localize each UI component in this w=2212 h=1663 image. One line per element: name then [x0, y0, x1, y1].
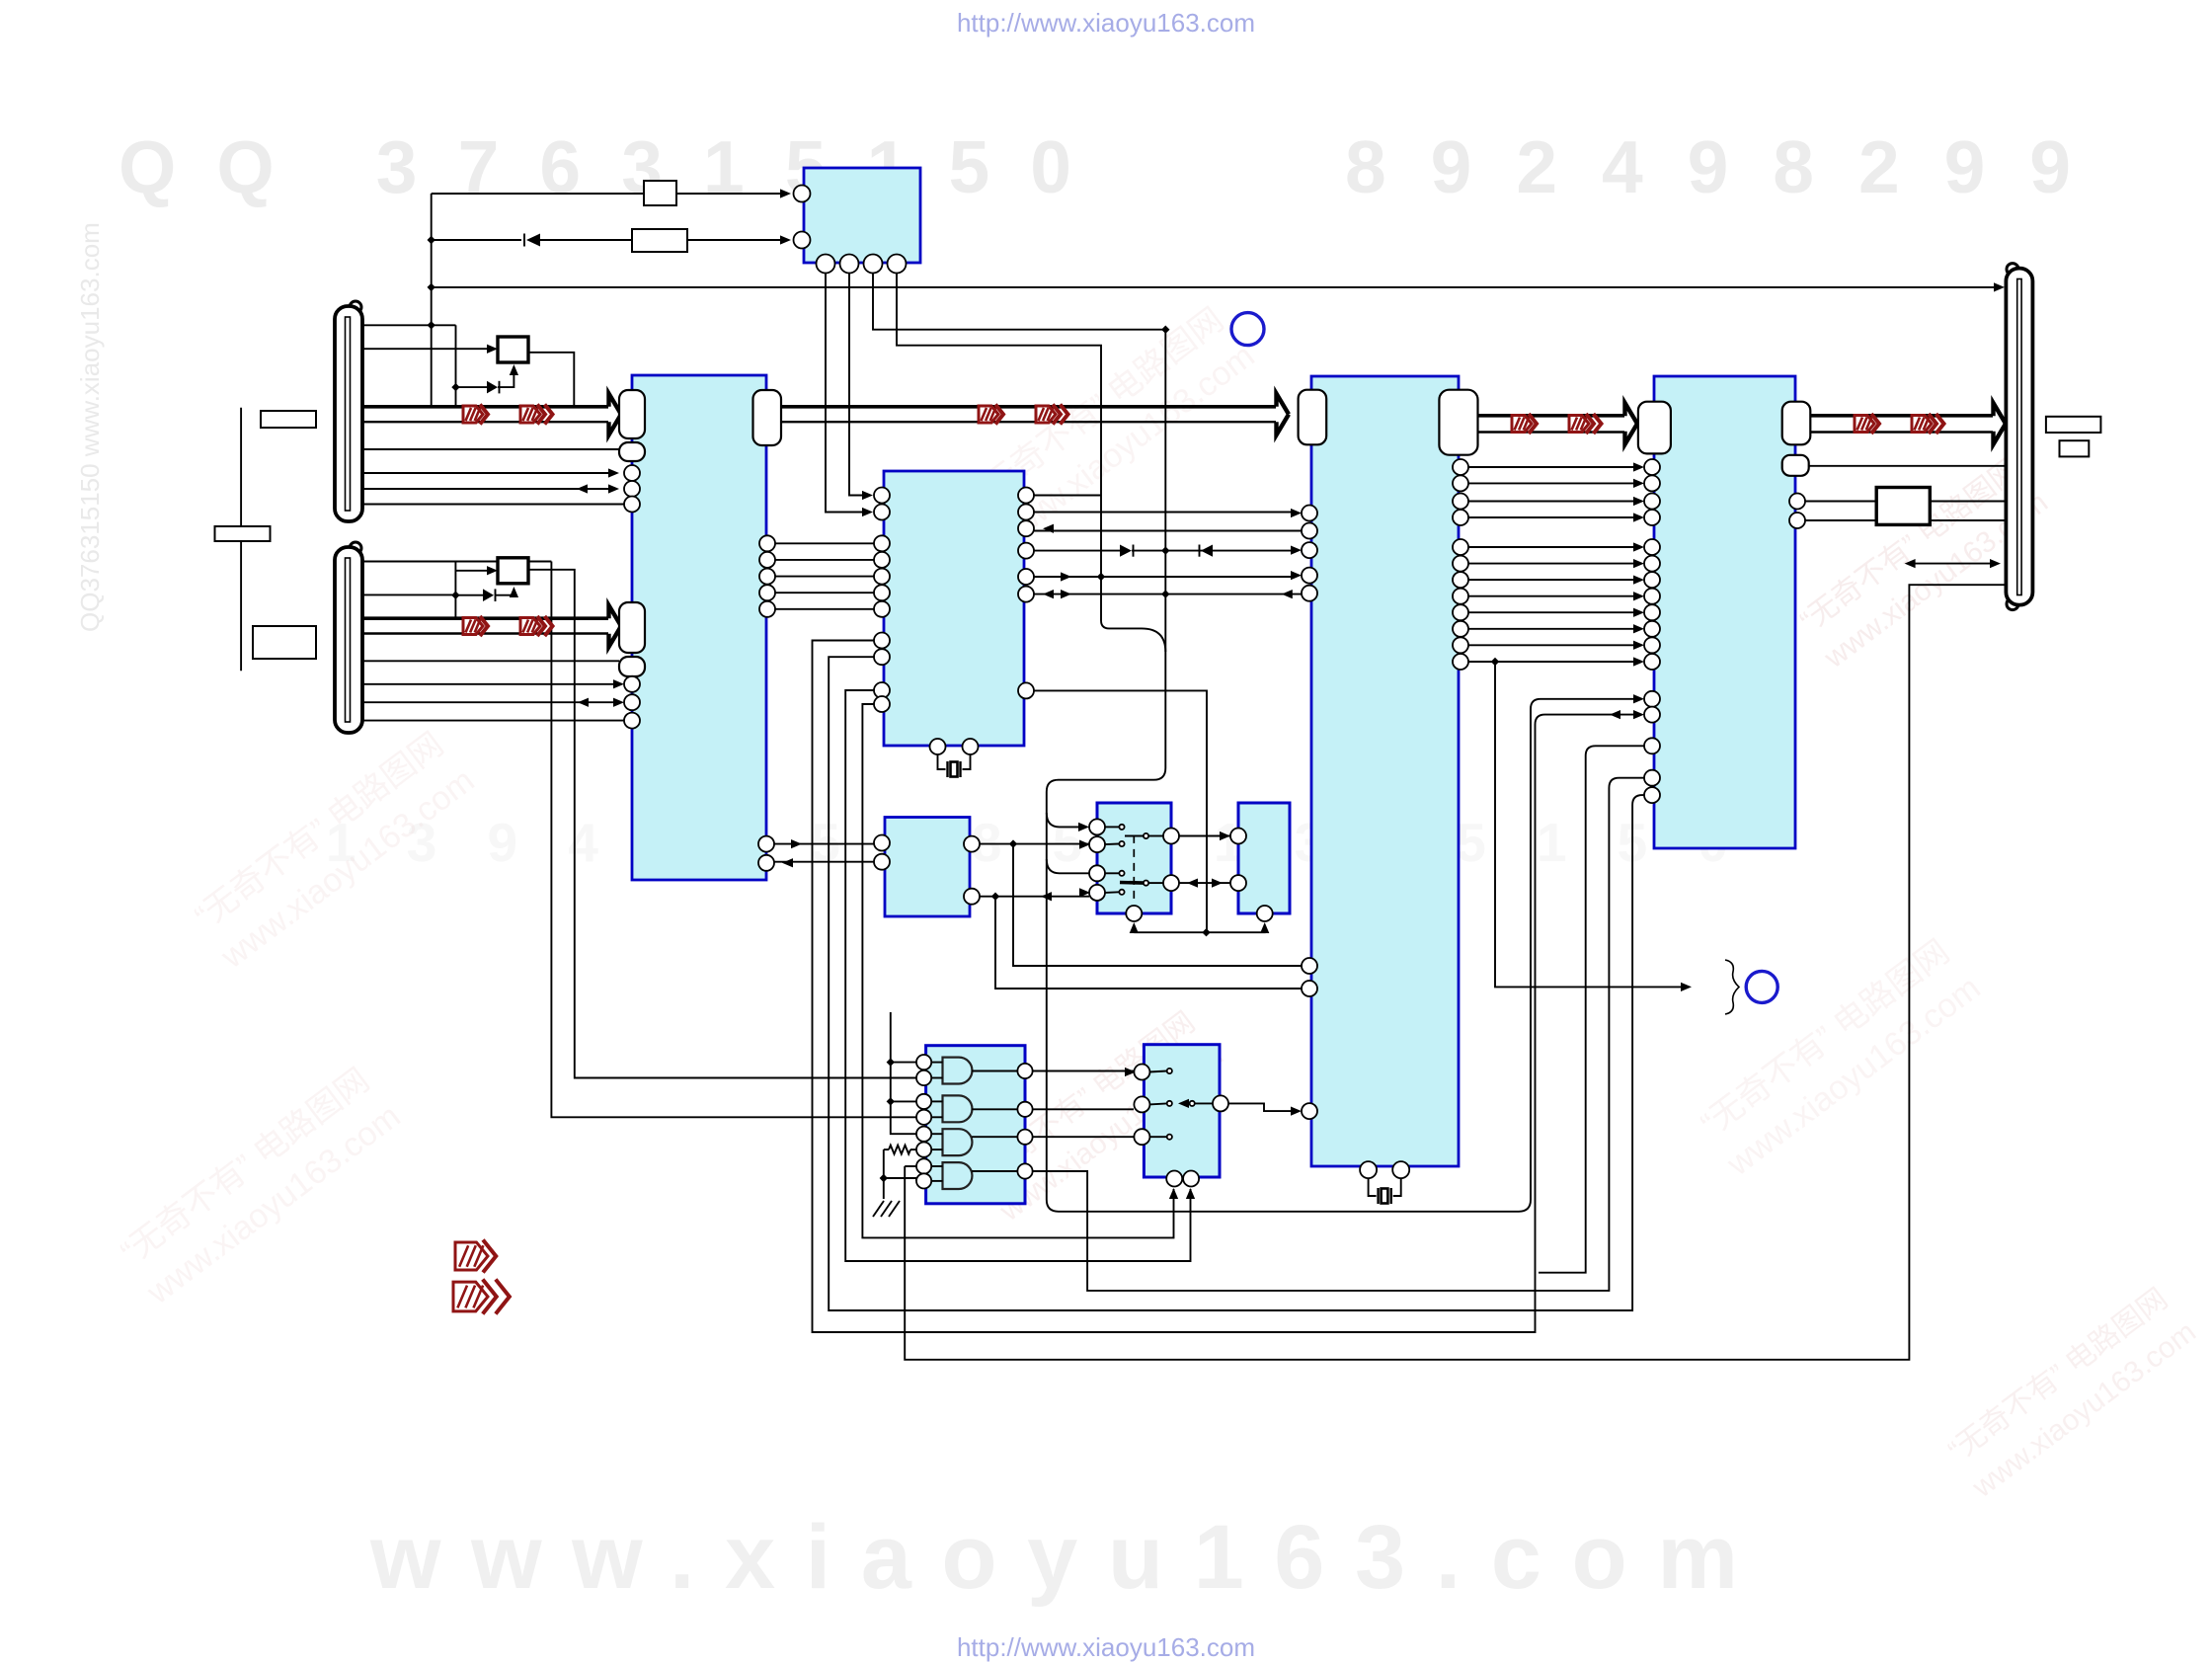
SW1 bottom pin [1126, 906, 1142, 921]
crystal X2 [1369, 1178, 1401, 1204]
wire U2 p699 down [845, 690, 1195, 1261]
wire S1 out [528, 353, 574, 406]
wire s-curve branch [1101, 577, 1165, 652]
U6 bottom pins [817, 255, 907, 274]
U3 right pins [964, 836, 980, 905]
svg-text:139422568521315150: 139422568521315150 [326, 812, 1728, 873]
svg-text:QQ 376315150: QQ 376315150 [118, 125, 1071, 208]
wire sw bottom rail [1134, 922, 1269, 933]
junction [991, 893, 999, 901]
junction [880, 1174, 888, 1182]
junction [451, 383, 459, 391]
wire row601 [1034, 590, 1302, 598]
IC U1 (signal processor) [632, 375, 766, 880]
ground GND1 [873, 1201, 900, 1217]
wire row 620 [1468, 608, 1644, 617]
wire gate in7 [905, 1165, 916, 1167]
legend icon double [453, 1280, 510, 1314]
bus icon [1036, 405, 1068, 425]
AND gate G3 [943, 1129, 973, 1155]
wire dbl arrow [1905, 559, 2001, 568]
bus icon [463, 405, 488, 425]
diode D2 [1120, 545, 1134, 557]
wire R1 to U6 pin1 [676, 189, 791, 198]
U9 mid contact [1190, 1101, 1195, 1106]
wire CN2 pin6 [362, 720, 624, 722]
bus B2 arrowhead [609, 605, 622, 647]
wire U3a down to U4 [1013, 844, 1302, 966]
resistor R3 wire [884, 1148, 889, 1150]
U5 left pins [1230, 829, 1246, 892]
junction [1097, 573, 1105, 581]
wire D5 feed [455, 594, 483, 596]
wire U3 out a [980, 839, 1090, 848]
wire U6 pin a down [826, 274, 865, 513]
wire D1 to R2 [540, 239, 632, 241]
wire row557 a [1034, 550, 1120, 552]
wire top rail y291 [432, 282, 2005, 291]
bus icon [979, 405, 1003, 425]
wire row518 U2-U4 [1034, 509, 1302, 517]
U6 pin left 2 [794, 232, 811, 249]
IC U2 (servo dsp) [884, 471, 1024, 746]
U7 pin box out2 [1782, 455, 1809, 476]
wire S2 out down [528, 570, 916, 1078]
wire g3 out [1033, 1136, 1134, 1138]
wire feedback long [905, 585, 2006, 1360]
wire D5 up to S2 [496, 587, 519, 597]
U8 input pins [916, 1055, 931, 1189]
U2 right pins [1018, 488, 1034, 699]
wire row 603 [1468, 592, 1644, 600]
wire net B left [432, 239, 521, 241]
junction [1491, 658, 1499, 666]
IC U3 (memory) [885, 818, 970, 917]
U1 right pins mid [759, 535, 775, 617]
wire CN1 pin3 [362, 448, 619, 450]
U1 right pins bottom [758, 836, 774, 871]
U1 pin box in1 [619, 390, 645, 438]
wire CN2 pin1 branch down [551, 562, 916, 1118]
wire CN2 pin4 [362, 679, 624, 688]
junction [1161, 326, 1169, 334]
U9 contact stubs [1149, 1071, 1167, 1138]
resistor R2 [632, 229, 687, 252]
wire net A (to U6 pin1) [432, 193, 644, 195]
wire gate in1 [891, 1062, 916, 1064]
wire U2 p713 down [862, 704, 1178, 1237]
U7 pin box out [1782, 402, 1811, 445]
wire row 670 [1468, 657, 1644, 666]
wire U2 p648 down [813, 641, 1645, 1333]
U7 left pins low [1644, 691, 1660, 803]
IC U6 (top block) [804, 168, 920, 263]
junction [428, 283, 435, 291]
wire D4 feed [456, 386, 488, 388]
bus B1 lines [362, 407, 608, 422]
bus icon [520, 616, 553, 636]
wire U1-U3 a [774, 839, 874, 848]
wire row 554 [1468, 542, 1644, 551]
wire CN2 pin1 [362, 561, 551, 563]
wire fl out a [1930, 501, 2006, 503]
wire gate in3 [891, 1100, 916, 1102]
wire g4 out [1033, 778, 1644, 1291]
bus B1 arrowhead [609, 394, 622, 436]
wire gate chain v902 [891, 1012, 916, 1134]
U8 output pins [1017, 1064, 1032, 1179]
blue circle S2out [1746, 971, 1777, 1002]
wire CN2 pin5 [362, 698, 624, 707]
wire row 473 [1468, 462, 1644, 471]
wire U6 pin b down [849, 274, 865, 496]
junction [428, 321, 435, 329]
wire R2 to U6 pin2 [687, 235, 791, 244]
wire U2-U6c net [1034, 495, 1101, 497]
bus B3 arrowhead [1277, 394, 1290, 436]
wire row 600 [775, 592, 874, 594]
wire branch x461b [454, 562, 456, 618]
IC U5 (driver) [1238, 803, 1290, 913]
wire row 570 [1468, 559, 1644, 568]
wire gnd branch [884, 1178, 916, 1181]
capacitor plate P2 [215, 526, 271, 541]
junction [1161, 546, 1169, 554]
svg-text:http://www.xiaoyu163.com: http://www.xiaoyu163.com [957, 1632, 1255, 1662]
wire U6a to U2 [862, 508, 873, 516]
wire row 653 [1468, 641, 1644, 650]
wire left stub vertical [240, 408, 242, 672]
wire row 617 [775, 608, 874, 610]
U2 left pins top [874, 488, 890, 520]
wire row 584 [775, 576, 874, 578]
bus B4 arrowhead [1625, 403, 1638, 444]
diode D1 [524, 234, 540, 247]
wire sw feed arc1 [1047, 813, 1089, 831]
U1 left pins upper [624, 465, 640, 513]
U7 pin box in [1638, 402, 1671, 454]
U4 pin box in [1299, 390, 1327, 445]
wire CN1 pin6 [362, 504, 624, 506]
U2 left pins low [874, 633, 890, 713]
wire SW1 bottom [1130, 922, 1139, 933]
junction [1202, 928, 1210, 936]
wire CN1 pin4 [362, 468, 619, 477]
bus B3 lines [781, 407, 1276, 422]
component box P3 [253, 626, 316, 659]
bus icon [463, 616, 488, 636]
wire D4 up to S1 [498, 364, 518, 387]
U1 right pin box out [753, 390, 782, 445]
wire v1026 gap [0, 0, 1, 1]
U9 contacts [1167, 1069, 1172, 1140]
AND gate G1 [943, 1058, 973, 1084]
wire g1 out [1033, 1068, 1136, 1076]
blue circle S1out [1231, 313, 1264, 346]
bus B4 lines [1478, 416, 1625, 433]
U4 left pins [1302, 506, 1317, 601]
U7 left pins [1644, 459, 1660, 670]
wire fl out b [1930, 519, 2006, 521]
wire U3b down to U4 [995, 897, 1302, 989]
wire row 489 [1468, 479, 1644, 488]
U9 left pins [1134, 1065, 1149, 1146]
SW1 right pins [1163, 829, 1179, 892]
wire row755 feed [1539, 746, 1644, 1272]
resistor R3 [889, 1146, 910, 1154]
wire SW1 out b [1179, 878, 1230, 887]
wire row 587 [1468, 575, 1644, 584]
legend icon single [455, 1240, 496, 1273]
junction [1161, 590, 1169, 597]
U3 left pins [874, 835, 890, 870]
SW1 lever [1120, 881, 1144, 885]
U9 bottom pins [1166, 1171, 1199, 1187]
U2 left pins mid [874, 535, 890, 617]
wire U9 out [1228, 1103, 1294, 1111]
junction [887, 1058, 895, 1066]
diode D4 [487, 381, 500, 394]
crystal X1 [938, 754, 971, 777]
U4 left pins low [1302, 958, 1317, 1119]
IC U7 (interface) [1654, 376, 1795, 848]
wire U4 in low [1291, 1106, 1302, 1115]
junction [1009, 839, 1017, 847]
svg-text:QQ376315150 www.xiaoyu163.com: QQ376315150 www.xiaoyu163.com [75, 222, 105, 632]
U4 pin box out [1439, 390, 1477, 455]
wire gnd chain [883, 1149, 885, 1199]
U7 right pins [1789, 494, 1805, 529]
junction [887, 1097, 895, 1105]
svg-text:http://www.xiaoyu163.com: http://www.xiaoyu163.com [957, 8, 1255, 38]
component box P1 [261, 411, 316, 428]
wire CN1 pin1 [362, 324, 456, 326]
U6 pin left 1 [794, 186, 811, 202]
SW1 contacts [1119, 825, 1124, 895]
wire row 567 [775, 559, 874, 561]
U4 right pins [1453, 459, 1468, 670]
U9 right pin [1213, 1095, 1228, 1111]
SW1 dashed bar [1133, 835, 1135, 904]
bus B5 arrowhead [1994, 403, 2007, 444]
AND gate G4 [943, 1162, 973, 1189]
wire row535 U4-U2 [1034, 524, 1302, 533]
resistor R1 [644, 181, 676, 205]
U1 pin box in1b [619, 442, 645, 461]
bus B5 lines [1810, 416, 1993, 433]
diode D5 [483, 589, 496, 601]
wire row584 [1034, 571, 1302, 582]
connector CN3 (right) [2006, 264, 2032, 610]
U2 bottom pins [930, 739, 979, 754]
brace [1725, 960, 1739, 1014]
junction [428, 236, 435, 244]
bus icon [520, 405, 553, 425]
U9 mid wire [1178, 1099, 1213, 1108]
bus icon [1912, 414, 1944, 434]
IC U9 (selector) [1144, 1045, 1220, 1177]
junction [451, 592, 459, 599]
wire sw feed arc2 [1047, 859, 1090, 873]
U1 left pins lower [624, 676, 640, 729]
wire U2 p665 down [829, 657, 1644, 1310]
wire branch x461 down [455, 325, 457, 406]
filter FL1 [1876, 488, 1930, 525]
diode D3 [1200, 545, 1214, 557]
wire CN2 pin3 [362, 660, 619, 662]
wire row557 b [1132, 545, 1302, 554]
SW1 mid contacts [1144, 833, 1148, 886]
wire S2 feed [455, 566, 498, 575]
wire R3 to pin [910, 1148, 916, 1150]
svg-text:www.xiaoyu163.com: www.xiaoyu163.com [369, 1507, 1738, 1608]
wire SW1 out a [1179, 831, 1230, 840]
connector CN2 (lower left) [335, 542, 362, 733]
box S1 [498, 337, 528, 362]
bus icon [1512, 414, 1537, 434]
wire U2 p699r [1034, 690, 1207, 932]
SW1 contact stubs [1105, 827, 1119, 893]
U8 gate out stubs [972, 1071, 1017, 1172]
wire U3 out b [980, 888, 1090, 901]
svg-text:892498299: 892498299 [1345, 125, 2071, 208]
wire U6 pin c down [873, 274, 1644, 1212]
connector CN1 (upper left) [335, 301, 362, 521]
wire U3-U1 b [774, 858, 875, 867]
AND gate G2 [943, 1095, 973, 1122]
rect R5 [2046, 417, 2101, 433]
U1 pin box in2 [619, 602, 645, 653]
bus icon [1569, 414, 1602, 434]
bus icon [1855, 414, 1879, 434]
wire row 636 [1468, 624, 1644, 633]
box S2 [498, 558, 528, 584]
U4 bottom pins [1360, 1161, 1409, 1178]
U5 bottom pin [1257, 906, 1273, 921]
IC U8 (gate array) [926, 1046, 1025, 1204]
wire CN1 pin2 [362, 345, 498, 354]
wire row 550 [775, 542, 874, 544]
U1 pin box in2b [619, 657, 645, 676]
wire fl in a [1805, 501, 1876, 503]
SW1 left pins [1089, 819, 1105, 901]
wire fl in b [1805, 519, 1876, 521]
wire row 524 [1468, 513, 1644, 521]
switch SW1 [1097, 803, 1171, 913]
rect R6 [2060, 440, 2090, 456]
SW1 row wires [1125, 836, 1163, 884]
wire CN2 pin2 [362, 594, 455, 595]
U8 gate input stubs [931, 1063, 942, 1181]
IC U4 (system control) [1311, 376, 1459, 1166]
bus B2 lines [362, 618, 608, 633]
wire g2 out [1033, 1108, 1134, 1110]
wire CN1 pin5 [362, 484, 619, 493]
wire row 507 [1468, 497, 1644, 506]
wire vertical x437 [431, 194, 433, 406]
wire brace net [1495, 662, 1692, 991]
wire U7 aux [1809, 465, 2006, 467]
wire U6b to U2 [862, 491, 873, 500]
wire U6 pin d down [897, 274, 1101, 577]
